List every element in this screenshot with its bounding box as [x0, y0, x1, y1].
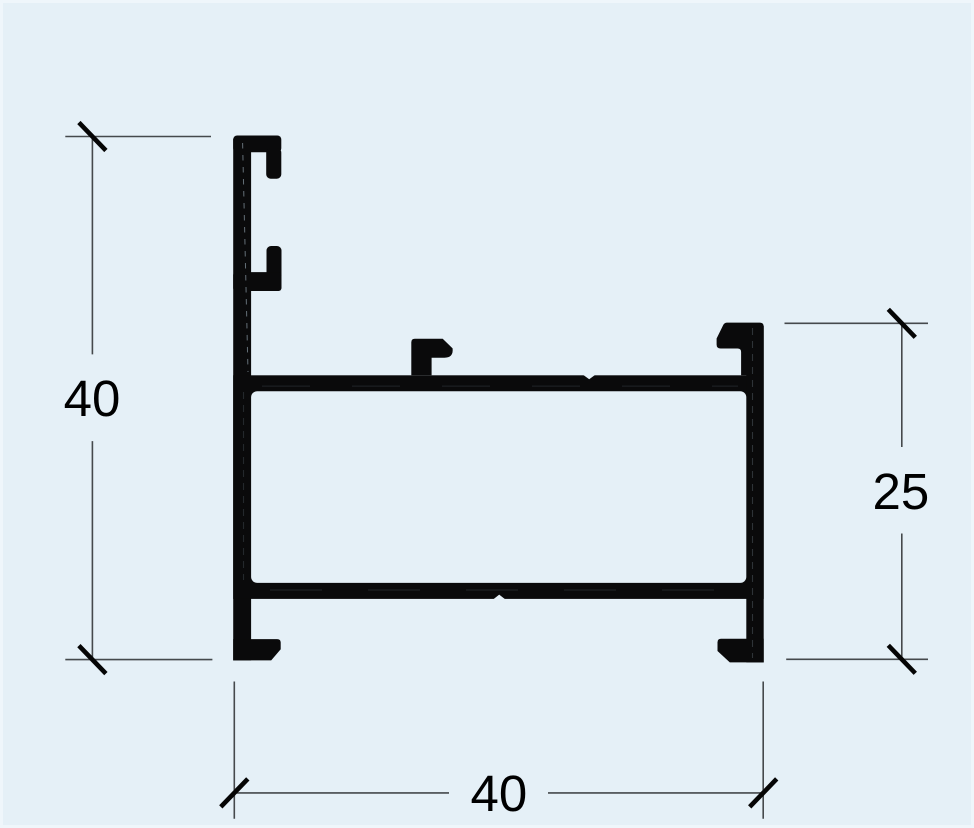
svg-text:40: 40 [64, 370, 121, 427]
svg-text:25: 25 [873, 463, 930, 520]
svg-text:40: 40 [471, 765, 528, 822]
